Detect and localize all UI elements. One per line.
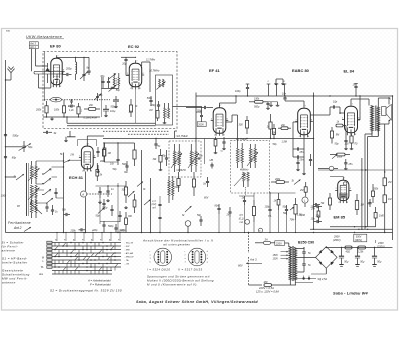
caption model	[333, 292, 369, 296]
svg-text:50μ: 50μ	[360, 261, 365, 264]
capacitor 200p	[62, 68, 72, 77]
switch bank S2	[47, 232, 121, 274]
wire EL84 screen	[358, 95, 361, 120]
svg-text:1M: 1M	[388, 198, 391, 201]
switch contact K	[36, 189, 52, 195]
ground fm1	[50, 117, 54, 120]
svg-text:2: 2	[81, 170, 83, 172]
resistor v194	[192, 172, 195, 196]
label 1W ech	[70, 154, 74, 157]
switch contact L	[42, 178, 52, 184]
capacitor s1 c1	[102, 199, 105, 210]
capacitor 8p	[87, 57, 91, 75]
capacitor 10n	[282, 92, 287, 101]
label mA meter	[152, 201, 157, 210]
svg-text:130V: 130V	[273, 259, 279, 261]
meter circle	[245, 219, 250, 224]
tube EABC80	[295, 105, 313, 138]
svg-text:1M: 1M	[108, 152, 111, 155]
coil 500p tall	[168, 176, 174, 203]
label 30k am	[124, 171, 129, 174]
svg-text:9: 9	[347, 202, 348, 204]
label 400	[100, 160, 105, 163]
svg-text:200p: 200p	[65, 68, 72, 71]
svg-text:6: 6	[350, 188, 351, 190]
svg-text:2: 2	[213, 135, 215, 137]
svg-text:B250 C90: B250 C90	[298, 241, 314, 245]
capacitor 100p vol	[265, 205, 272, 215]
svg-text:150V: 150V	[273, 255, 279, 257]
wavemeter circle A	[81, 191, 113, 197]
svg-text:50p: 50p	[96, 215, 101, 218]
switch arrow s1b	[144, 200, 151, 206]
svg-text:80n: 80n	[215, 204, 220, 207]
tube EC92	[127, 60, 144, 90]
resistor 20k mid	[278, 124, 291, 130]
capacitor 50u a	[339, 248, 349, 267]
resistor 70k	[321, 193, 332, 210]
svg-text:(280V): (280V)	[333, 239, 341, 242]
svg-text:antenne: antenne	[2, 281, 16, 285]
capacitor s1 c4	[102, 221, 105, 233]
svg-text:Aus: Aus	[38, 273, 44, 276]
resistor am2	[133, 143, 136, 166]
svg-text:50p: 50p	[116, 89, 121, 92]
svg-text:101μ: 101μ	[110, 110, 116, 113]
svg-text:→ MW: → MW	[123, 250, 131, 252]
capacitor pair s1	[98, 187, 101, 198]
capacitor 25n em	[310, 205, 322, 210]
resistor 1,25k	[358, 246, 366, 253]
label Arbeitskontakt	[87, 279, 111, 287]
label 12,7MHz small	[146, 60, 156, 62]
resistor v176	[177, 172, 180, 192]
svg-text:50p: 50p	[273, 143, 278, 146]
svg-text:breite-Schalter: breite-Schalter	[2, 261, 28, 265]
svg-text:50p: 50p	[335, 143, 340, 146]
svg-text:6: 6	[94, 155, 95, 157]
antenna terminal box Ant3/Ant1	[29, 42, 38, 72]
svg-text:50Ω: 50Ω	[6, 31, 10, 33]
resistor 1M am	[102, 143, 110, 162]
svg-text:St: St	[292, 180, 295, 183]
svg-text:1: 1	[150, 258, 151, 260]
wire v141	[141, 150, 143, 233]
wire ef41 to ratio	[226, 115, 238, 143]
svg-text:mit unten gesehen: mit unten gesehen	[163, 243, 190, 247]
svg-text:10n: 10n	[282, 92, 287, 95]
FM tuner dashed box	[43, 52, 177, 129]
svg-text:9(t) 2,5A: 9(t) 2,5A	[318, 278, 328, 281]
svg-text:1: 1	[79, 155, 80, 157]
label 1,5M	[282, 140, 287, 143]
wire B+ bus	[196, 95, 393, 96]
wire v160	[159, 196, 160, 233]
capacitor 5n bridge b	[302, 264, 311, 270]
svg-text:500p: 500p	[108, 225, 114, 228]
bandfilter I dashed box	[169, 141, 201, 177]
label 50p mid	[273, 143, 278, 146]
capacitor 25n el	[344, 159, 353, 170]
capacitor UB	[210, 159, 214, 168]
wire bus2	[310, 229, 393, 230]
capacitor 25n vol	[310, 203, 321, 209]
label 200p s1r	[174, 186, 181, 189]
svg-text:6: 6	[227, 118, 228, 120]
resistor 30k mid	[272, 124, 277, 139]
trimmer 50p var	[6, 141, 33, 152]
label 50p am	[113, 168, 118, 171]
svg-text:(290V): (290V)	[355, 239, 362, 242]
wire sec b	[368, 131, 379, 227]
capacitor 3k below box	[43, 131, 57, 135]
wire ef80 grid	[39, 80, 51, 88]
tube ECH81	[79, 143, 96, 172]
svg-text:1M0: 1M0	[379, 215, 384, 218]
label ECH 81	[69, 175, 84, 180]
label 290V	[333, 235, 341, 242]
antenna mast left	[6, 67, 15, 80]
capacitor s1 c5	[114, 224, 117, 233]
switch contact M2	[46, 198, 53, 204]
label EM 85	[334, 215, 346, 220]
resistor 5M grid el84	[330, 112, 340, 143]
resistor 1k cathode	[336, 120, 346, 135]
capacitor 1n s1	[106, 186, 114, 197]
label 200k bottom	[70, 228, 86, 232]
svg-text:2: 2	[298, 136, 300, 138]
svg-text:468kHz: 468kHz	[240, 169, 249, 172]
svg-text:12,7MHz: 12,7MHz	[146, 60, 156, 62]
capacitor 50u b	[355, 248, 365, 267]
label EF 80	[50, 44, 61, 49]
dashed mains line	[249, 233, 263, 286]
svg-text:EM 85: EM 85	[334, 215, 346, 220]
svg-text:S2 = Drucktastenaggregat Nr.: S2 = Drucktastenaggregat Nr. 5329 ZU 150	[50, 289, 122, 293]
svg-text:→ MW,LW: → MW,LW	[123, 257, 134, 259]
dipole antenna bar	[34, 71, 63, 83]
resistor 1M em	[355, 194, 364, 215]
ground ech top	[64, 137, 68, 142]
ratio det coils	[236, 143, 256, 168]
svg-text:Ant 2: Ant 2	[13, 226, 22, 230]
svg-text:9: 9	[355, 134, 356, 136]
wire vol area	[254, 192, 296, 205]
wire sec a	[365, 131, 372, 229]
cathode network el84	[335, 134, 358, 150]
tube EF41	[211, 105, 229, 137]
label 230V	[376, 240, 385, 248]
capacitor 500p af	[254, 102, 270, 109]
dashed AGC line in box	[44, 99, 110, 101]
svg-text:25n: 25n	[299, 158, 305, 161]
label Ferritantenne	[8, 221, 31, 232]
svg-text:II = 5317 DU33: II = 5317 DU33	[178, 268, 202, 272]
antenna symbol triangle	[36, 63, 50, 71]
resistor 100k	[54, 100, 66, 117]
wire drops volume	[218, 205, 296, 233]
svg-text:10,7MHz: 10,7MHz	[149, 69, 160, 73]
oscillator coil set 1	[28, 161, 40, 184]
label EABC 80	[292, 68, 310, 73]
capacitor 80p rail	[4, 156, 17, 160]
svg-text:1: 1	[336, 188, 337, 190]
note S1	[2, 257, 28, 265]
svg-text:1: 1	[49, 69, 50, 71]
capacitor eabc c1	[296, 158, 300, 171]
svg-text:6: 6	[358, 117, 359, 119]
svg-text:500p: 500p	[254, 105, 260, 108]
label 1000	[119, 231, 125, 233]
resistor 150k	[249, 97, 268, 103]
wire bottom bus	[6, 232, 393, 233]
svg-text:1: 1	[127, 73, 128, 75]
note mains voltage	[256, 286, 279, 294]
label S2 Drucktasten	[50, 289, 122, 293]
svg-text:(4,2): (4,2)	[152, 203, 157, 206]
svg-text:→ KW: → KW	[123, 246, 130, 248]
svg-text:10p: 10p	[333, 100, 338, 103]
oscillator coil set 3	[30, 200, 42, 218]
voltage box 220V	[275, 241, 289, 246]
lamp L	[302, 197, 308, 207]
capacitor 3a	[203, 177, 209, 187]
capacitor 25n det1	[293, 147, 304, 153]
capacitor 50p vol	[283, 205, 289, 215]
svg-text:Ant 3: Ant 3	[249, 258, 257, 262]
wire s1 h1	[96, 185, 127, 186]
rectifier B250 C90 label	[298, 241, 314, 245]
output transformer	[371, 106, 380, 137]
trimmer St switch	[6, 174, 25, 180]
fuse 3A	[255, 237, 275, 244]
svg-text:100k: 100k	[1, 195, 7, 198]
label 10k	[110, 162, 115, 165]
wire s1 h2	[100, 221, 120, 223]
label meter 05	[239, 215, 244, 224]
svg-text:Anschlüsse der Kombinationsfil: Anschlüsse der Kombinationsfilter I u II	[142, 239, 213, 243]
capacitor 14u fm	[68, 99, 73, 108]
label TA	[268, 214, 272, 218]
label 80V left	[204, 197, 209, 200]
svg-text:220V: 220V	[276, 242, 282, 245]
mixer caps	[96, 143, 106, 162]
bandfilter I coils	[171, 144, 199, 172]
ground s1	[98, 199, 128, 209]
svg-text:80V: 80V	[238, 264, 243, 268]
socket diagram I	[150, 248, 172, 266]
svg-text:9: 9	[60, 86, 61, 88]
resistor 200k det	[330, 153, 350, 159]
svg-text:100p: 100p	[235, 90, 241, 93]
wire v100	[99, 198, 101, 224]
resistor 90ohm	[345, 246, 352, 253]
ratio detector dashed box	[231, 141, 270, 194]
tube EF80	[48, 55, 64, 88]
svg-text:A: A	[82, 192, 84, 196]
capacitor s1 c6	[158, 204, 161, 218]
svg-text:EABC 80: EABC 80	[292, 68, 310, 73]
capacitor 101u	[103, 105, 116, 117]
ground below box	[67, 131, 76, 137]
label 1W fm	[129, 99, 133, 117]
capacitor 10p coupling	[310, 100, 344, 115]
label 3k fm2	[135, 106, 138, 108]
svg-text:150k: 150k	[254, 97, 260, 100]
label 100k left	[1, 195, 7, 198]
svg-text:antenne: antenne	[2, 249, 16, 253]
resistor 2k	[266, 114, 272, 139]
resistor 30k v	[153, 149, 163, 171]
page mark	[6, 31, 10, 33]
switch bank right labels	[123, 243, 134, 266]
svg-text:200k: 200k	[70, 229, 77, 232]
capacitor 70p bf1 right	[176, 156, 203, 173]
capacitor 20p	[121, 57, 136, 76]
resistor s1 r3	[125, 212, 128, 233]
resistor 10k vol	[316, 206, 321, 223]
label 3k s1	[143, 189, 146, 191]
switch arrow s1a	[137, 182, 143, 187]
wire EC92 plate to coil	[142, 62, 150, 92]
svg-text:TA: TA	[41, 266, 44, 269]
wire B+ out	[326, 247, 392, 248]
svg-text:3A: 3A	[265, 237, 268, 241]
capacitor 50p trim fm	[94, 93, 103, 101]
wire v361	[361, 158, 363, 229]
capacitor 1n el84	[353, 83, 358, 96]
svg-text:1: 1	[185, 262, 186, 264]
resistor right fm	[147, 96, 153, 112]
svg-text:≈468kHz: ≈468kHz	[176, 169, 187, 172]
label 20p bottom	[91, 229, 98, 232]
wire right rail	[392, 96, 394, 240]
svg-text:2: 2	[129, 88, 131, 90]
potentiometer 0,1M	[290, 198, 302, 220]
svg-text:F = Ruhekontakt: F = Ruhekontakt	[90, 283, 111, 287]
svg-text:→ LW: → LW	[123, 264, 130, 266]
svg-text:→ TA: → TA	[123, 259, 129, 262]
ground pair top	[274, 79, 285, 85]
svg-text:300: 300	[239, 123, 244, 126]
label Ant 3 arrow	[238, 258, 262, 268]
capacitor s1 c3	[118, 211, 121, 222]
resistor 300	[239, 116, 249, 134]
ground pair mid	[268, 102, 279, 106]
capacitor 4n right	[367, 199, 372, 207]
jack circle K	[258, 228, 262, 232]
wire left rail	[5, 60, 6, 233]
svg-text:2: 2	[337, 202, 339, 204]
ratio det tertiary	[234, 152, 258, 187]
capacitor 5n	[154, 138, 160, 149]
switch arrow s1e	[98, 208, 105, 214]
switch arrow s1d	[128, 191, 135, 197]
resistor 2M right	[383, 172, 391, 195]
svg-text:→ WL,LW: → WL,LW	[123, 243, 134, 245]
wire v385	[384, 124, 386, 172]
switch bank top labels	[55, 238, 120, 241]
caption manufacturer	[136, 300, 258, 304]
coil L1	[57, 57, 90, 80]
svg-text:80p: 80p	[12, 156, 17, 160]
resistor 200k right	[372, 184, 379, 203]
voltage box 300V	[354, 234, 367, 242]
svg-text:M und U (Klammerwerte auf V).: M und U (Klammerwerte auf V).	[147, 283, 198, 287]
svg-text:25n: 25n	[348, 163, 354, 166]
svg-text:1: 1	[342, 117, 343, 119]
svg-text:25n: 25n	[299, 151, 305, 154]
svg-text:→ ATL,AB: → ATL,AB	[123, 252, 134, 255]
svg-text:9: 9	[91, 170, 92, 172]
wire bus3	[330, 226, 376, 227]
ground eabc	[302, 170, 306, 175]
label 70 percent	[290, 218, 296, 221]
svg-text:UKW-Netzantenne: UKW-Netzantenne	[26, 35, 62, 39]
note Spannungen	[147, 275, 214, 287]
svg-text:100: 100	[345, 143, 350, 146]
label 100p s1	[120, 229, 126, 232]
label 500p s1	[108, 225, 114, 228]
label 0,1M/0,4mA	[84, 117, 98, 120]
label EL 84	[344, 69, 355, 74]
jack circle	[185, 221, 191, 233]
capacitor 70p bf1 left	[162, 150, 168, 166]
svg-text:2M: 2M	[387, 181, 391, 184]
svg-text:10n: 10n	[311, 218, 316, 221]
ground ech	[96, 165, 100, 173]
wire v118	[117, 183, 118, 233]
svg-text:20k: 20k	[88, 104, 94, 107]
resistor 1M right	[383, 195, 391, 233]
label 10,7MHz top	[149, 69, 160, 73]
capacitor 100p bus	[235, 84, 249, 96]
label 300 s1	[128, 216, 133, 218]
wire EL84 plate	[351, 99, 369, 106]
IF output transformer box	[150, 75, 172, 125]
wire ratio out	[239, 187, 254, 196]
heater pin stubs	[267, 81, 287, 96]
wire v204	[204, 139, 206, 165]
svg-text:220V = 0,5A: 220V = 0,5A	[258, 286, 274, 290]
svg-text:(220V): (220V)	[377, 245, 385, 248]
oscillator coil set 2	[28, 185, 40, 203]
svg-text:1: 1	[296, 119, 297, 121]
svg-text:1,4k: 1,4k	[69, 109, 74, 112]
svg-text:25n: 25n	[310, 206, 316, 209]
svg-text:400: 400	[100, 160, 105, 163]
tube EL84	[342, 103, 360, 136]
bandpass cluster	[100, 73, 120, 88]
resistor 200k vol	[271, 178, 289, 184]
svg-text:UB: UB	[210, 159, 214, 162]
svg-text:200p: 200p	[174, 186, 181, 189]
svg-text:80V: 80V	[204, 197, 209, 200]
capacitor eabc c2	[309, 154, 312, 166]
svg-text:6: 6	[143, 73, 144, 75]
svg-text:μ20p: μ20p	[91, 229, 98, 232]
label 10,7MHz bf1	[176, 134, 189, 138]
switch bank left labels	[38, 257, 45, 277]
svg-text:50μ: 50μ	[344, 261, 349, 264]
capacitor s1 c2	[110, 205, 113, 216]
wire v313	[313, 93, 314, 231]
svg-text:mA: mA	[152, 207, 156, 210]
svg-text:1,5M: 1,5M	[282, 140, 287, 143]
heater lines	[66, 88, 155, 126]
svg-text:9: 9	[139, 88, 140, 90]
svg-text:40Ω: 40Ω	[346, 250, 351, 253]
